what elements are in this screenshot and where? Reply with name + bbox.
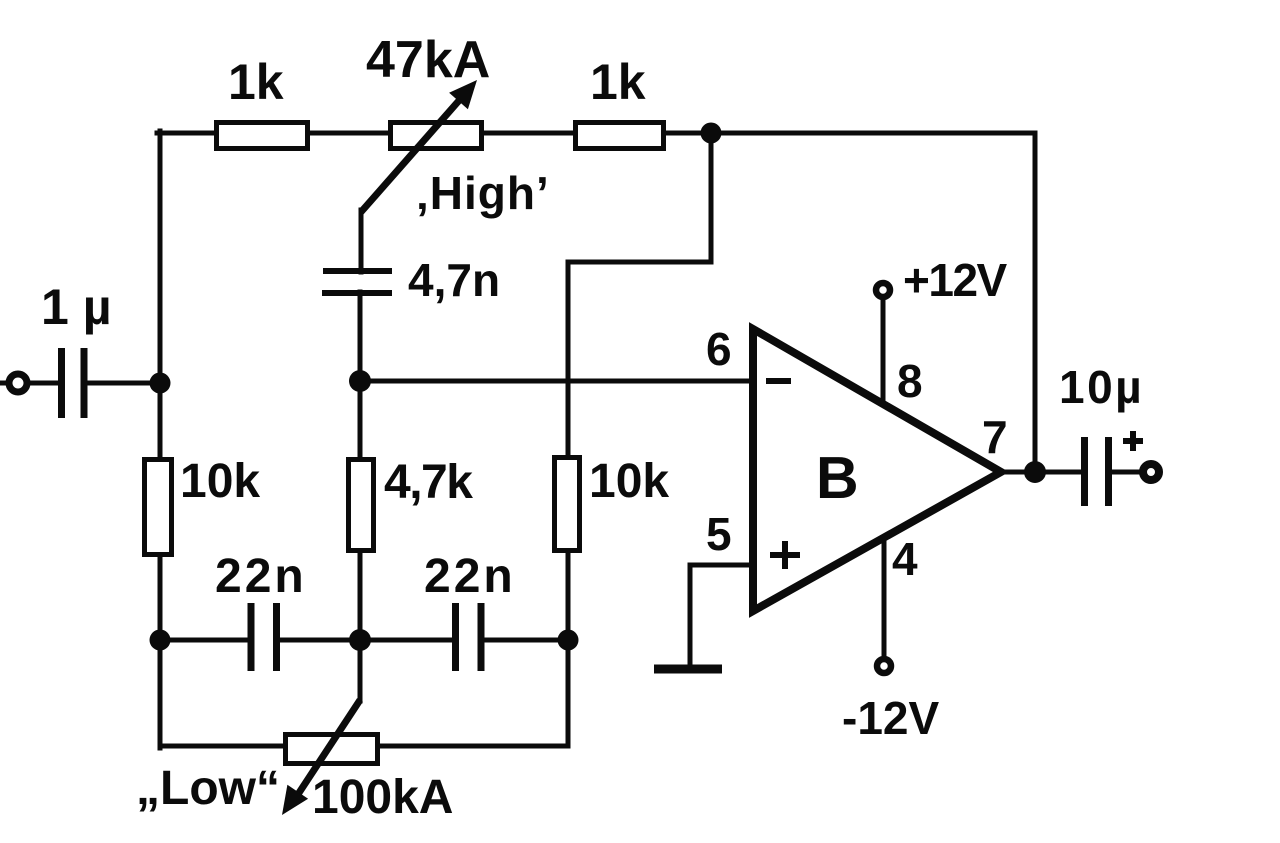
svg-text:100kA: 100kA bbox=[312, 771, 453, 824]
svg-text:22n: 22n bbox=[424, 550, 516, 603]
-12V terminal bbox=[842, 659, 939, 744]
wire R4 to node D bbox=[358, 552, 363, 642]
wire input to C1 bbox=[29, 381, 58, 386]
node A junction bbox=[150, 373, 171, 394]
svg-text:1 µ: 1 µ bbox=[41, 279, 112, 335]
svg-text:4: 4 bbox=[892, 533, 918, 585]
wire input stub bbox=[0, 381, 7, 386]
node F junction bbox=[150, 630, 171, 651]
svg-text:4,7k: 4,7k bbox=[384, 456, 473, 509]
resistor R5 10k bbox=[555, 455, 670, 551]
wire top rail left segment bbox=[157, 131, 216, 136]
svg-text:10k: 10k bbox=[589, 455, 669, 508]
capacitor C2 4,7n bbox=[322, 254, 500, 306]
capacitor C4 22n bbox=[424, 550, 516, 671]
resistor R3 10k bbox=[145, 455, 261, 555]
wire node D to C4 bbox=[360, 638, 453, 643]
resistor R4 4,7k bbox=[349, 456, 474, 551]
node B junction bbox=[701, 123, 722, 144]
wire C3 to node D bbox=[279, 638, 360, 643]
svg-text:7: 7 bbox=[982, 411, 1008, 463]
node C junction bbox=[349, 370, 371, 392]
output terminal bbox=[1143, 464, 1159, 480]
minus sign at pin 6 bbox=[766, 378, 791, 384]
wire pin 5 down to ground bbox=[688, 565, 693, 668]
wire left vertical lower (R3 to bottom rail) bbox=[158, 554, 163, 748]
capacitor C3 22n bbox=[215, 550, 307, 671]
svg-text:-12V: -12V bbox=[842, 692, 939, 744]
svg-text:1k: 1k bbox=[228, 54, 284, 110]
svg-text:10k: 10k bbox=[180, 455, 260, 508]
svg-text:1k: 1k bbox=[590, 54, 646, 110]
svg-text:5: 5 bbox=[706, 508, 732, 560]
wire R1 to P1 bbox=[308, 131, 390, 136]
wire inverting input (node C to op-amp pin 6) bbox=[360, 379, 753, 384]
wire left vertical upper (node A up to top rail, down to R3) bbox=[158, 131, 163, 460]
node G output junction bbox=[1024, 461, 1046, 483]
op-amp U1 (B) bbox=[753, 329, 1001, 611]
svg-text:8: 8 bbox=[897, 355, 923, 407]
wire bottom rail right bbox=[378, 744, 568, 749]
svg-text:10µ: 10µ bbox=[1059, 361, 1144, 413]
plus sign at pin 5 bbox=[770, 552, 800, 558]
wire right rail vertical bbox=[1033, 133, 1038, 472]
wire +12V stem bbox=[881, 298, 886, 406]
svg-text:47kA: 47kA bbox=[366, 31, 490, 89]
wire op-amp pin 5 horizontal bbox=[690, 563, 753, 568]
wire node B down bbox=[709, 133, 714, 262]
ground bbox=[654, 665, 722, 674]
wire R5 to node E bbox=[566, 551, 571, 642]
svg-text:„Low“: „Low“ bbox=[136, 762, 280, 815]
resistor R1 1k bbox=[217, 54, 308, 149]
plus polarity mark bbox=[1123, 438, 1143, 444]
wire P1 to R2 bbox=[482, 131, 576, 136]
input terminal bbox=[9, 374, 27, 392]
wire P1 wiper stem vertical bbox=[359, 210, 364, 272]
wire feedback down to R5 bbox=[566, 262, 571, 459]
wire node C to R4 bbox=[358, 381, 363, 460]
wire C5 to output terminal bbox=[1112, 470, 1141, 475]
wire C1 to node A bbox=[88, 381, 163, 386]
svg-text:22n: 22n bbox=[215, 550, 307, 603]
wire C4 to node E bbox=[484, 638, 568, 643]
capacitor C5 10µ bbox=[1059, 361, 1144, 506]
wire -12V stem bbox=[882, 535, 887, 658]
node E junction bbox=[558, 630, 579, 651]
wire C2 to node C bbox=[358, 292, 363, 383]
wire bottom rail left bbox=[160, 744, 286, 749]
node D junction bbox=[349, 629, 371, 651]
+12V terminal bbox=[876, 254, 1008, 306]
wire node E down to bottom rail bbox=[566, 638, 571, 746]
svg-text:6: 6 bbox=[706, 323, 732, 375]
svg-text:‚High’: ‚High’ bbox=[416, 167, 550, 219]
capacitor C1 1µ bbox=[41, 279, 112, 418]
wire feedback horizontal bbox=[568, 260, 711, 265]
wire bottom cap row: node F to C3 bbox=[160, 638, 249, 643]
wire op-amp output to node G bbox=[999, 470, 1083, 475]
wire R2 to top-right corner bbox=[663, 131, 1035, 136]
svg-text:B: B bbox=[816, 445, 859, 511]
svg-text:+12V: +12V bbox=[903, 254, 1008, 306]
potentiometer P2 100kA bbox=[282, 700, 453, 824]
potentiometer P1 47kA bbox=[361, 31, 490, 212]
wire P2 wiper stem from node D bbox=[358, 640, 363, 701]
svg-text:4,7n: 4,7n bbox=[408, 254, 500, 306]
resistor R2 1k bbox=[576, 54, 664, 149]
